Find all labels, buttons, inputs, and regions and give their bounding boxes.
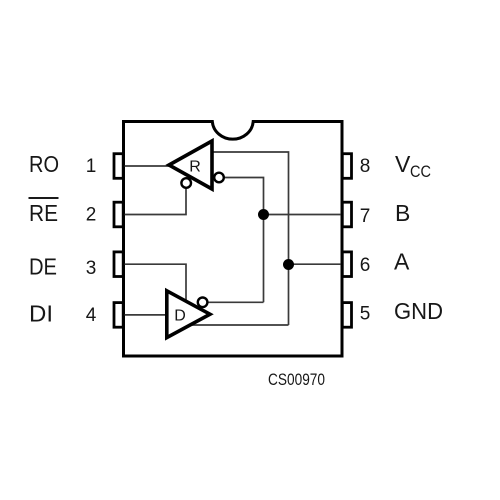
svg-text:R: R xyxy=(189,159,201,176)
svg-text:CC: CC xyxy=(410,162,431,181)
svg-text:V: V xyxy=(395,151,411,177)
svg-text:D: D xyxy=(174,308,186,325)
svg-text:RO: RO xyxy=(29,151,59,177)
svg-text:6: 6 xyxy=(360,255,371,276)
svg-text:GND: GND xyxy=(394,298,443,324)
svg-text:DE: DE xyxy=(29,254,57,280)
svg-text:3: 3 xyxy=(86,258,97,279)
svg-text:7: 7 xyxy=(360,206,371,227)
svg-text:2: 2 xyxy=(86,205,97,226)
svg-text:5: 5 xyxy=(360,304,371,325)
svg-text:DI: DI xyxy=(29,301,53,327)
svg-text:CS00970: CS00970 xyxy=(268,371,325,389)
svg-text:1: 1 xyxy=(86,156,97,177)
svg-text:RE: RE xyxy=(29,200,58,226)
svg-text:8: 8 xyxy=(360,156,371,177)
svg-text:B: B xyxy=(395,200,410,226)
svg-text:4: 4 xyxy=(86,305,97,326)
svg-text:A: A xyxy=(394,249,410,275)
